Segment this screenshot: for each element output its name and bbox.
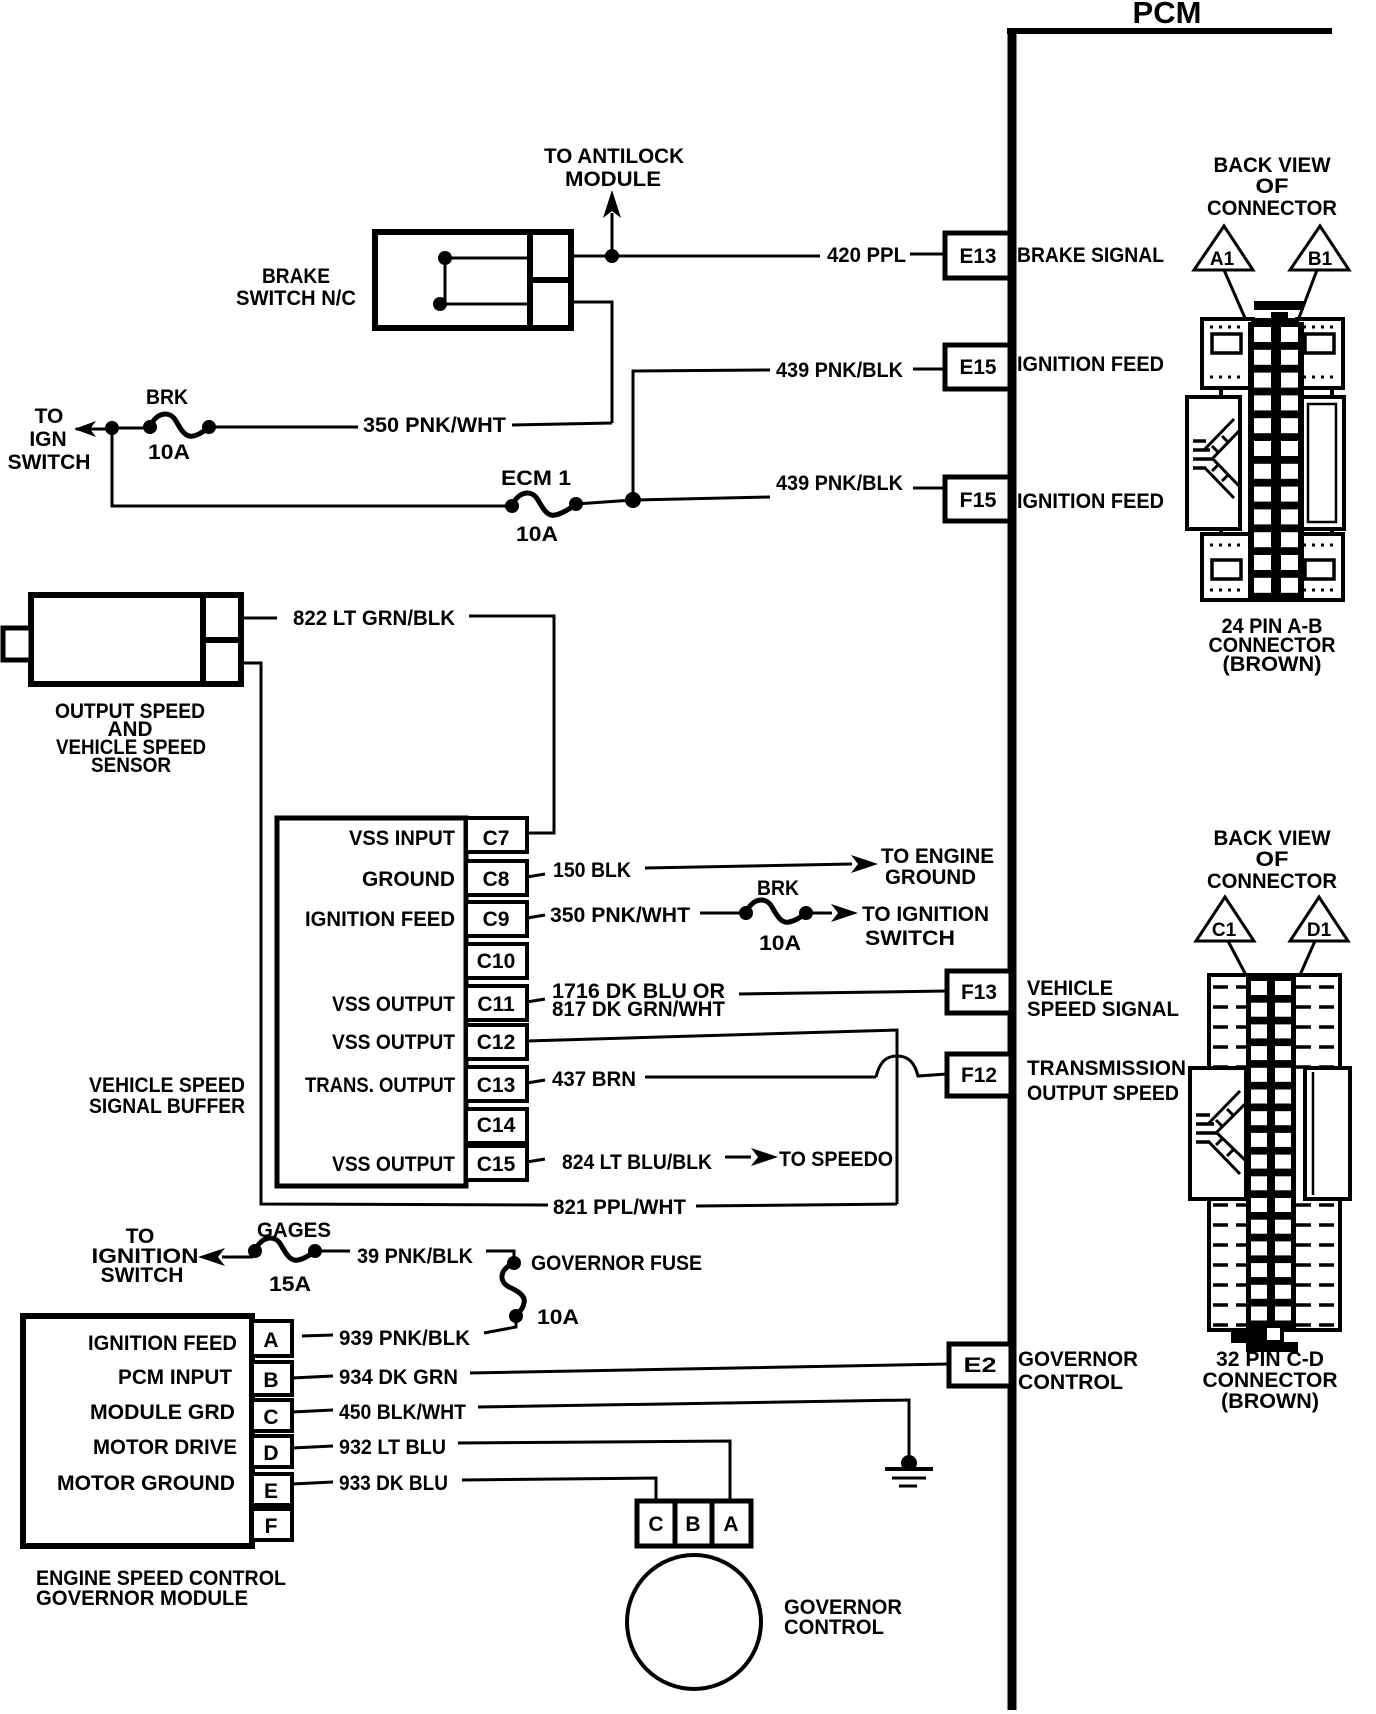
triangle A1 <box>1194 226 1258 345</box>
svg-text:F12: F12 <box>961 1064 997 1087</box>
connector key tab <box>1254 301 1304 310</box>
buffer pin C12 <box>332 1025 527 1059</box>
module pin A <box>252 1321 292 1356</box>
svg-text:TO SPEEDO: TO SPEEDO <box>779 1148 893 1171</box>
PCM pin box F15 <box>945 477 1164 521</box>
svg-text:F15: F15 <box>960 489 997 512</box>
svg-text:ECM 1: ECM 1 <box>501 467 571 490</box>
buffer pin C9 <box>305 902 527 936</box>
svg-text:(BROWN): (BROWN) <box>1223 653 1322 676</box>
fuse BRK 10A (buffer) <box>739 877 813 955</box>
svg-text:350 PNK/WHT: 350 PNK/WHT <box>550 904 690 927</box>
middle left block with ribbon arrow <box>1190 1068 1246 1199</box>
dashed wire rows bottom <box>1213 1205 1337 1325</box>
ground symbol <box>885 1455 933 1486</box>
svg-text:PCM: PCM <box>1133 0 1202 30</box>
svg-text:OUTPUT SPEED: OUTPUT SPEED <box>1027 1082 1179 1105</box>
svg-text:C7: C7 <box>483 827 510 850</box>
svg-text:GROUND: GROUND <box>362 868 455 891</box>
svg-text:(BROWN): (BROWN) <box>1221 1390 1319 1413</box>
svg-text:C15: C15 <box>477 1153 516 1176</box>
svg-text:MOTOR GROUND: MOTOR GROUND <box>57 1472 235 1495</box>
middle right block <box>1305 1068 1350 1199</box>
svg-text:SWITCH: SWITCH <box>101 1264 184 1287</box>
svg-text:TRANS. OUTPUT: TRANS. OUTPUT <box>305 1074 455 1097</box>
svg-text:TO ANTILOCK: TO ANTILOCK <box>544 145 684 168</box>
svg-text:439 PNK/BLK: 439 PNK/BLK <box>776 359 903 382</box>
center pin grid <box>1246 976 1296 1328</box>
fuse GOVERNOR FUSE 10A (vertical) <box>502 1252 702 1329</box>
svg-text:C12: C12 <box>477 1031 516 1054</box>
corner block bottom-left <box>1202 534 1253 600</box>
arrow to ign switch <box>8 405 112 474</box>
svg-text:932 LT BLU: 932 LT BLU <box>339 1436 446 1459</box>
svg-text:C11: C11 <box>477 993 515 1016</box>
svg-text:F: F <box>265 1515 278 1538</box>
svg-text:VSS INPUT: VSS INPUT <box>349 827 455 850</box>
svg-text:39 PNK/BLK: 39 PNK/BLK <box>357 1245 473 1268</box>
PCM pin box F12 <box>947 1054 1186 1105</box>
svg-text:MODULE: MODULE <box>565 168 661 191</box>
svg-text:E15: E15 <box>960 356 997 379</box>
svg-text:15A: 15A <box>269 1273 311 1296</box>
svg-text:OF: OF <box>1256 848 1289 871</box>
svg-text:GOVERNOR FUSE: GOVERNOR FUSE <box>531 1252 702 1275</box>
svg-text:10A: 10A <box>516 523 558 546</box>
buffer pin C7 <box>349 818 527 852</box>
module pin F <box>252 1509 292 1540</box>
node 350/ECM junction <box>105 421 119 435</box>
svg-text:B1: B1 <box>1308 249 1333 270</box>
svg-text:CONNECTOR: CONNECTOR <box>1203 1369 1338 1392</box>
wire 933 DK BLU to governor control C <box>292 1472 656 1501</box>
triangle B1 <box>1290 226 1349 343</box>
svg-text:C10: C10 <box>477 950 516 973</box>
svg-text:PCM INPUT: PCM INPUT <box>118 1366 232 1389</box>
wire 150 BLK to engine ground <box>527 845 994 889</box>
svg-text:VSS OUTPUT: VSS OUTPUT <box>332 1153 455 1176</box>
svg-text:C13: C13 <box>477 1074 516 1097</box>
svg-text:32 PIN C-D: 32 PIN C-D <box>1216 1348 1324 1371</box>
svg-text:IGNITION FEED: IGNITION FEED <box>88 1332 237 1355</box>
node brake/antilock junction <box>605 249 619 263</box>
triangle C1 <box>1196 897 1262 1005</box>
wire 822 LT GRN/BLK <box>241 607 554 833</box>
svg-text:IGNITION FEED: IGNITION FEED <box>1017 353 1164 376</box>
svg-text:CONTROL: CONTROL <box>1018 1371 1123 1394</box>
middle left block with ribbon arrow <box>1187 397 1240 529</box>
fuse GAGES 15A <box>248 1219 331 1296</box>
vehicle speed signal buffer box <box>89 818 466 1186</box>
svg-text:B: B <box>263 1369 278 1392</box>
svg-text:SWITCH: SWITCH <box>8 451 91 474</box>
svg-text:E: E <box>264 1480 278 1503</box>
wire 939 PNK/BLK <box>302 1316 516 1350</box>
svg-text:C: C <box>263 1406 278 1429</box>
wire C12 VSS output to 821 <box>527 1030 897 1204</box>
svg-text:A1: A1 <box>1210 249 1235 270</box>
governor control connector C B A <box>637 1501 751 1546</box>
buffer pin C15 <box>332 1146 527 1180</box>
buffer pin C10 <box>466 944 527 978</box>
svg-text:B: B <box>685 1513 700 1536</box>
gages fuse row: to ignition switch <box>92 1225 254 1287</box>
engine speed control governor module box <box>23 1316 286 1610</box>
wire 439 PNK/BLK to F15 <box>633 472 945 500</box>
svg-text:821 PPL/WHT: 821 PPL/WHT <box>553 1196 686 1219</box>
module pin D <box>252 1436 292 1467</box>
svg-text:TO: TO <box>35 405 64 428</box>
wire 437 BRN to F12 with crossover hump <box>527 1056 947 1091</box>
svg-text:E2: E2 <box>964 1354 997 1377</box>
PCM pin box E15 <box>945 345 1164 389</box>
svg-text:150 BLK: 150 BLK <box>553 859 631 882</box>
svg-text:SIGNAL BUFFER: SIGNAL BUFFER <box>89 1095 245 1118</box>
svg-text:TO ENGINE: TO ENGINE <box>881 845 994 868</box>
dashed wire rows top <box>1213 987 1337 1067</box>
svg-text:IGNITION FEED: IGNITION FEED <box>305 908 455 931</box>
PCM pin box E13 <box>945 233 1164 278</box>
middle right block <box>1298 397 1344 529</box>
svg-text:437 BRN: 437 BRN <box>552 1068 636 1091</box>
svg-text:D1: D1 <box>1307 920 1332 941</box>
svg-text:E13: E13 <box>960 245 997 268</box>
svg-text:10A: 10A <box>148 441 190 464</box>
wire 934 DK GRN to E2 <box>292 1364 949 1389</box>
wire brake switch to 350 junction <box>571 302 612 423</box>
svg-text:BRAKE SIGNAL: BRAKE SIGNAL <box>1017 244 1164 267</box>
triangle D1 <box>1288 897 1348 1004</box>
svg-text:10A: 10A <box>759 932 801 955</box>
svg-text:GOVERNOR MODULE: GOVERNOR MODULE <box>36 1587 248 1610</box>
svg-text:SWITCH: SWITCH <box>865 927 955 950</box>
svg-text:A: A <box>723 1513 738 1536</box>
svg-text:D: D <box>263 1442 278 1465</box>
wire 420 PPL brake signal <box>571 244 945 267</box>
svg-text:SWITCH N/C: SWITCH N/C <box>236 287 356 310</box>
svg-text:VSS OUTPUT: VSS OUTPUT <box>332 1031 455 1054</box>
output speed / vehicle speed sensor <box>3 595 241 777</box>
wire ECM1 to F15/E15 junction <box>576 500 633 504</box>
wire 39 PNK/BLK <box>315 1245 514 1268</box>
svg-text:BACK VIEW: BACK VIEW <box>1214 827 1331 850</box>
svg-text:GOVERNOR: GOVERNOR <box>1018 1348 1138 1371</box>
module pin B <box>252 1362 292 1395</box>
fuse BRK 10A <box>143 386 216 464</box>
svg-text:MOTOR DRIVE: MOTOR DRIVE <box>93 1436 237 1459</box>
svg-text:824 LT BLU/BLK: 824 LT BLU/BLK <box>562 1151 712 1174</box>
svg-text:TO IGNITION: TO IGNITION <box>862 903 989 926</box>
buffer pin C13 <box>305 1067 527 1101</box>
svg-text:MODULE GRD: MODULE GRD <box>90 1401 235 1424</box>
wire to ECM1 fuse <box>112 428 511 506</box>
svg-text:VEHICLE SPEED: VEHICLE SPEED <box>89 1074 245 1097</box>
svg-text:GAGES: GAGES <box>257 1219 331 1242</box>
svg-text:934 DK GRN: 934 DK GRN <box>339 1366 458 1389</box>
svg-text:GROUND: GROUND <box>885 866 976 889</box>
wire 350 PNK/WHT <box>112 414 612 437</box>
connector body outline <box>1221 320 1332 598</box>
svg-text:F13: F13 <box>961 981 997 1004</box>
svg-text:CONNECTOR: CONNECTOR <box>1207 197 1337 220</box>
svg-text:CONTROL: CONTROL <box>784 1616 884 1639</box>
svg-text:SPEED SIGNAL: SPEED SIGNAL <box>1027 998 1179 1021</box>
svg-text:C14: C14 <box>477 1114 516 1137</box>
wire sensor low side to 821 PPL/WHT <box>241 663 548 1205</box>
svg-text:BACK VIEW: BACK VIEW <box>1214 154 1331 177</box>
wire 821 PPL/WHT <box>553 1196 897 1219</box>
wire 439 PNK/BLK to E15 <box>633 359 945 500</box>
svg-text:TRANSMISSION: TRANSMISSION <box>1027 1057 1186 1080</box>
governor control motor circle <box>627 1555 902 1689</box>
svg-text:VEHICLE: VEHICLE <box>1027 977 1113 1000</box>
buffer pin C8 <box>362 861 527 895</box>
svg-text:450 BLK/WHT: 450 BLK/WHT <box>339 1401 466 1424</box>
fuse ECM1 10A <box>501 467 583 546</box>
corner block top-left <box>1202 319 1253 388</box>
svg-text:420 PPL: 420 PPL <box>827 244 906 267</box>
svg-text:OF: OF <box>1256 175 1289 198</box>
svg-text:C8: C8 <box>483 868 510 891</box>
center pin grid <box>1248 322 1304 602</box>
PCM pin box F13 <box>947 971 1179 1021</box>
buffer pin C14 <box>466 1109 527 1143</box>
svg-text:933 DK BLU: 933 DK BLU <box>339 1472 448 1495</box>
bottom tab <box>1231 1331 1264 1343</box>
module pin E <box>252 1474 292 1505</box>
svg-text:SENSOR: SENSOR <box>91 754 171 777</box>
wire 450 BLK/WHT to ground <box>292 1400 909 1456</box>
svg-text:C: C <box>648 1513 663 1536</box>
svg-text:IGN: IGN <box>29 428 66 451</box>
svg-text:A: A <box>263 1329 278 1352</box>
wire 350 PNK/WHT to ignition switch <box>527 904 744 927</box>
corner block top-right <box>1297 319 1343 388</box>
svg-text:IGNITION FEED: IGNITION FEED <box>1017 490 1164 513</box>
svg-text:CONNECTOR: CONNECTOR <box>1207 870 1337 893</box>
svg-text:BRAKE: BRAKE <box>262 265 330 288</box>
svg-text:C1: C1 <box>1212 920 1237 941</box>
module pin C <box>252 1400 292 1431</box>
wire 1716 DK BLU OR 817 DK GRN/WHT to F13 <box>527 980 947 1021</box>
PCM boundary line <box>1007 0 1332 1710</box>
svg-text:VSS OUTPUT: VSS OUTPUT <box>332 993 455 1016</box>
svg-text:817 DK GRN/WHT: 817 DK GRN/WHT <box>552 998 725 1021</box>
svg-text:C9: C9 <box>483 908 510 931</box>
svg-text:BRK: BRK <box>146 386 188 409</box>
svg-text:10A: 10A <box>537 1306 579 1329</box>
connector body <box>1209 975 1340 1330</box>
PCM pin box E2 <box>949 1344 1138 1394</box>
wire to antilock module w/ arrow <box>544 145 684 256</box>
svg-text:939 PNK/BLK: 939 PNK/BLK <box>339 1327 470 1350</box>
wire 932 LT BLU to governor control A <box>292 1436 730 1501</box>
svg-text:BRK: BRK <box>757 877 799 900</box>
svg-text:439 PNK/BLK: 439 PNK/BLK <box>776 472 903 495</box>
buffer pin C11 <box>332 986 527 1020</box>
svg-text:822 LT GRN/BLK: 822 LT GRN/BLK <box>293 607 455 630</box>
svg-text:350 PNK/WHT: 350 PNK/WHT <box>363 414 506 437</box>
wire 824 LT BLU/BLK to speedo <box>527 1148 893 1174</box>
brake switch N/C <box>236 232 571 328</box>
corner block bottom-right <box>1297 534 1343 600</box>
